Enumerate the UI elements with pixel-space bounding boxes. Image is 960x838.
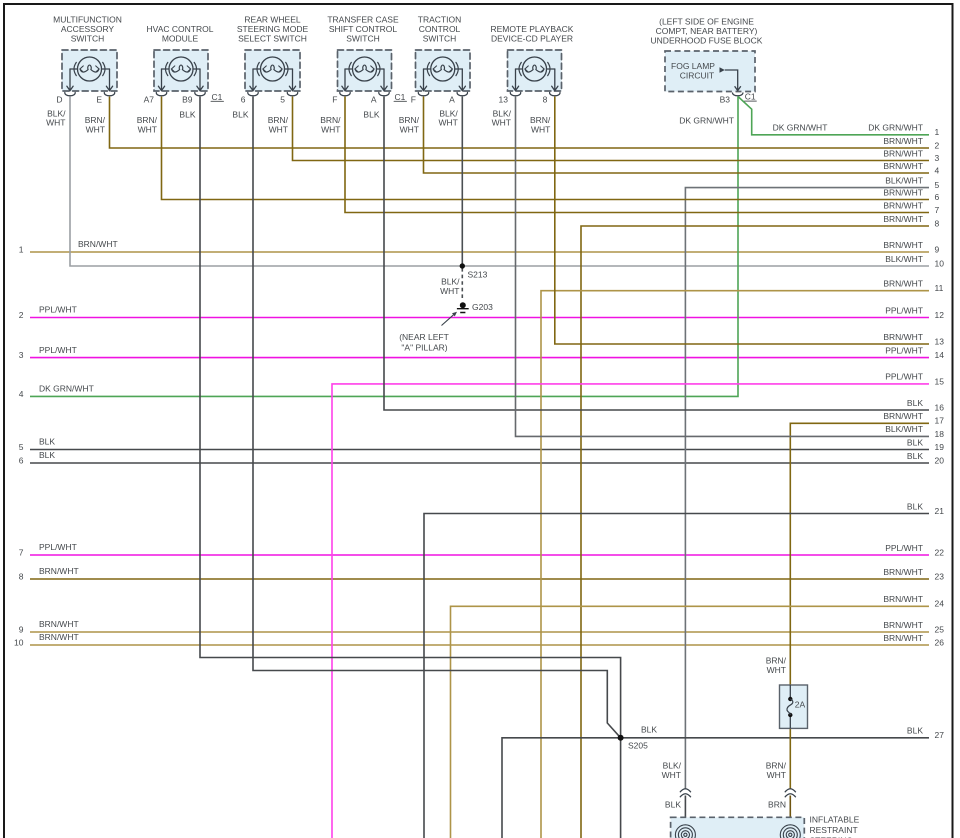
wire BLK left-6 to right-20 — [30, 462, 929, 464]
svg-text:TRACTION: TRACTION — [418, 15, 461, 25]
svg-text:INFLATABLE: INFLATABLE — [810, 814, 860, 824]
svg-text:D: D — [56, 94, 62, 104]
pin D wire color label — [46, 109, 66, 128]
svg-text:A: A — [449, 94, 455, 104]
svg-text:9: 9 — [935, 244, 940, 254]
svg-text:BLK: BLK — [232, 110, 248, 120]
wire BLK pin 6 branch to S205 — [253, 97, 621, 738]
svg-text:BLK: BLK — [363, 110, 379, 120]
svg-text:10: 10 — [14, 637, 24, 647]
svg-text:S205: S205 — [628, 740, 648, 750]
svg-text:BLK: BLK — [641, 724, 657, 734]
wire DK GRN/WHT fuse B3 to right-1 — [738, 97, 929, 135]
S213 wire label BLK/WHT — [440, 276, 460, 296]
fuse F1 2A — [780, 685, 808, 728]
svg-text:9: 9 — [19, 624, 24, 634]
pin A wire color label — [363, 110, 379, 120]
svg-text:3: 3 — [19, 350, 24, 360]
splice S205 — [618, 735, 649, 751]
svg-text:19: 19 — [935, 442, 945, 452]
svg-text:BLK: BLK — [907, 726, 923, 736]
svg-text:BLK/WHT: BLK/WHT — [885, 175, 923, 185]
pin A wire color label — [438, 109, 458, 128]
svg-text:F: F — [411, 94, 416, 104]
svg-text:BLK: BLK — [907, 451, 923, 461]
svg-text:SWITCH: SWITCH — [346, 34, 380, 44]
svg-text:C1: C1 — [395, 92, 406, 102]
svg-text:BLK: BLK — [907, 398, 923, 408]
svg-text:20: 20 — [935, 455, 945, 465]
wire BRN/WHT right-8 down to bottom — [581, 226, 929, 838]
svg-text:7: 7 — [19, 547, 24, 557]
svg-text:PPL/WHT: PPL/WHT — [39, 345, 77, 355]
transfer case shift control switch S3 — [327, 15, 406, 105]
svg-text:PPL/WHT: PPL/WHT — [39, 305, 77, 315]
svg-text:6: 6 — [935, 192, 940, 202]
svg-text:BRN/WHT: BRN/WHT — [883, 161, 923, 171]
wire BRN/WHT left-1 to right-9 — [30, 251, 929, 253]
svg-text:6: 6 — [19, 455, 24, 465]
svg-text:BRN/WHT: BRN/WHT — [883, 214, 923, 224]
svg-text:1: 1 — [19, 244, 24, 254]
svg-text:13: 13 — [935, 336, 945, 346]
svg-text:BRN/WHT: BRN/WHT — [883, 148, 923, 158]
svg-text:BRN/WHT: BRN/WHT — [883, 136, 923, 146]
svg-text:8: 8 — [935, 218, 940, 228]
svg-text:BLK: BLK — [179, 110, 195, 120]
remote playback device-CD player U2 — [491, 24, 574, 104]
svg-text:BRN/WHT: BRN/WHT — [883, 411, 923, 421]
svg-text:DK GRN/WHT: DK GRN/WHT — [773, 122, 828, 132]
svg-text:2: 2 — [935, 140, 940, 150]
svg-text:BRN/WHT: BRN/WHT — [883, 187, 923, 197]
svg-text:1: 1 — [935, 127, 940, 137]
clockspring coil right — [780, 825, 800, 838]
wire BLK/WHT right-5 down to connector — [685, 188, 929, 790]
pin 6 wire color label — [232, 110, 248, 120]
svg-text:WHT: WHT — [269, 125, 288, 135]
pin F wire color label — [320, 115, 341, 135]
svg-text:BRN/WHT: BRN/WHT — [883, 332, 923, 342]
in-line connector C3 (BRN/WHT to BRN) — [766, 760, 796, 809]
svg-text:8: 8 — [543, 94, 548, 104]
svg-text:MULTIFUNCTION: MULTIFUNCTION — [53, 15, 122, 25]
svg-text:22: 22 — [935, 547, 945, 557]
wire BRN connector to clockspring — [789, 796, 791, 825]
wire BRN/WHT left-8 to right-23 — [30, 578, 929, 580]
svg-text:WHT: WHT — [46, 118, 65, 128]
svg-text:C1: C1 — [745, 92, 756, 102]
svg-text:13: 13 — [499, 94, 509, 104]
pin F wire color label — [399, 115, 420, 135]
svg-text:BRN/WHT: BRN/WHT — [883, 240, 923, 250]
svg-text:BRN: BRN — [768, 799, 786, 809]
clockspring coil left — [675, 825, 695, 838]
svg-text:DK GRN/WHT: DK GRN/WHT — [39, 384, 94, 394]
wire BLK HVAC C1 branch to S205 — [200, 97, 621, 738]
svg-text:SWITCH: SWITCH — [423, 34, 457, 44]
svg-text:BLK/: BLK/ — [441, 276, 460, 286]
svg-text:8: 8 — [19, 571, 24, 581]
pin E wire color label — [85, 115, 106, 135]
svg-text:PPL/WHT: PPL/WHT — [39, 542, 77, 552]
svg-text:E: E — [96, 94, 102, 104]
svg-text:STEERING MODE: STEERING MODE — [237, 24, 309, 34]
svg-text:"A" PILLAR): "A" PILLAR) — [401, 342, 447, 352]
svg-text:5: 5 — [280, 94, 285, 104]
svg-text:G203: G203 — [472, 302, 493, 312]
wire BLK/WHT pin D to right-10 — [70, 97, 929, 267]
wire BRN/WHT left-10 to right-26 — [30, 644, 929, 646]
svg-text:BRN/WHT: BRN/WHT — [883, 200, 923, 210]
wire BLK pin A(S3) to right-16 — [384, 97, 929, 411]
inflatable restraint steering wheel module coil U4 — [671, 814, 860, 838]
svg-text:BRN/: BRN/ — [766, 655, 787, 665]
wire BRN/WHT fuse 2A to connector — [789, 728, 791, 789]
svg-text:WHT: WHT — [440, 286, 459, 296]
svg-text:TRANSFER CASE: TRANSFER CASE — [327, 15, 399, 25]
svg-text:BLK/: BLK/ — [663, 760, 682, 770]
rear wheel steering mode select switch S2 — [237, 15, 309, 105]
wire BRN/WHT pin A7 to right-6 — [162, 97, 930, 200]
wire BRN/WHT right-24 down to bottom — [451, 606, 930, 838]
svg-text:BLK/WHT: BLK/WHT — [885, 254, 923, 264]
svg-text:16: 16 — [935, 402, 945, 412]
wire PPL/WHT left-7 to right-22 — [30, 554, 929, 556]
svg-text:WHT: WHT — [400, 125, 419, 135]
wire BLK below splice S205 — [620, 738, 622, 838]
wire BRN/WHT right-17 to fuse 2A — [790, 423, 929, 685]
svg-text:DEVICE-CD PLAYER: DEVICE-CD PLAYER — [491, 34, 573, 44]
svg-text:SHIFT CONTROL: SHIFT CONTROL — [329, 24, 398, 34]
svg-text:DK GRN/WHT: DK GRN/WHT — [868, 123, 923, 133]
svg-text:PPL/WHT: PPL/WHT — [885, 372, 923, 382]
svg-text:C1: C1 — [212, 92, 223, 102]
svg-text:S213: S213 — [468, 269, 488, 279]
svg-text:18: 18 — [935, 429, 945, 439]
svg-text:REMOTE PLAYBACK: REMOTE PLAYBACK — [491, 24, 574, 34]
wire BRN/WHT right-11 down to bottom — [541, 291, 929, 838]
pin 8 wire color label — [530, 115, 551, 135]
svg-text:24: 24 — [935, 599, 945, 609]
svg-text:WHT: WHT — [321, 125, 340, 135]
svg-text:23: 23 — [935, 571, 945, 581]
svg-text:4: 4 — [19, 389, 24, 399]
svg-text:WHT: WHT — [86, 125, 105, 135]
pin A7 wire color label — [137, 115, 158, 135]
left terminal numbers and wire labels — [14, 239, 118, 647]
HVAC control module U1 — [144, 24, 224, 104]
svg-text:WHT: WHT — [138, 125, 157, 135]
ground G203 — [457, 302, 493, 313]
svg-text:(LEFT SIDE OF ENGINE: (LEFT SIDE OF ENGINE — [659, 17, 754, 27]
svg-text:RESTRAINT: RESTRAINT — [810, 825, 858, 835]
svg-text:5: 5 — [935, 180, 940, 190]
fuse wire label BRN/WHT — [766, 655, 787, 675]
svg-text:SWITCH: SWITCH — [71, 34, 105, 44]
wire BLK/WHT dashed S213 to G203 — [461, 268, 463, 300]
wire PPL/WHT left-2 to right-12 — [30, 317, 929, 319]
wire BRN/WHT left-9 to right-25 — [30, 631, 929, 633]
G203 location callout — [399, 312, 457, 353]
svg-text:BLK: BLK — [907, 501, 923, 511]
svg-text:BRN/: BRN/ — [530, 115, 551, 125]
svg-text:BRN/WHT: BRN/WHT — [883, 279, 923, 289]
svg-text:26: 26 — [935, 637, 945, 647]
svg-text:5: 5 — [19, 442, 24, 452]
svg-text:BRN/WHT: BRN/WHT — [883, 620, 923, 630]
wire BLK right-27 / S205 bus — [502, 738, 929, 838]
svg-text:A7: A7 — [144, 94, 155, 104]
svg-text:17: 17 — [935, 416, 945, 426]
svg-text:WHT: WHT — [438, 118, 457, 128]
svg-text:2: 2 — [19, 310, 24, 320]
wire PPL/WHT right-15 down to bottom — [332, 384, 929, 838]
svg-text:WHT: WHT — [531, 125, 550, 135]
svg-text:WHT: WHT — [767, 665, 786, 675]
svg-text:BRN/: BRN/ — [137, 115, 158, 125]
svg-text:6: 6 — [241, 94, 246, 104]
svg-text:PPL/WHT: PPL/WHT — [885, 305, 923, 315]
underhood fuse block U3 — [651, 17, 763, 105]
svg-text:BLK: BLK — [39, 450, 55, 460]
svg-text:BRN/WHT: BRN/WHT — [883, 594, 923, 604]
pin 5 wire color label — [268, 115, 289, 135]
svg-text:BRN/: BRN/ — [85, 115, 106, 125]
splice S213 — [460, 263, 488, 279]
multifunction accessory switch S1 — [53, 15, 122, 105]
svg-text:12: 12 — [935, 310, 945, 320]
svg-text:BRN/: BRN/ — [766, 760, 787, 770]
wire BRN/WHT pin 8 to right-13 — [555, 97, 929, 345]
svg-text:BLK: BLK — [39, 437, 55, 447]
svg-text:UNDERHOOD FUSE BLOCK: UNDERHOOD FUSE BLOCK — [651, 36, 763, 46]
svg-text:BRN/WHT: BRN/WHT — [883, 633, 923, 643]
svg-text:BRN/WHT: BRN/WHT — [883, 567, 923, 577]
svg-text:DK GRN/WHT: DK GRN/WHT — [679, 115, 734, 125]
svg-text:2A: 2A — [795, 699, 806, 709]
svg-text:PPL/WHT: PPL/WHT — [885, 543, 923, 553]
wire BLK/WHT pin A(S4) to splice S213 — [461, 97, 463, 267]
wire BRN/WHT pin F(S3) to right-7 — [345, 97, 929, 213]
svg-text:BLK: BLK — [907, 437, 923, 447]
svg-text:15: 15 — [935, 376, 945, 386]
svg-text:BRN/: BRN/ — [268, 115, 289, 125]
wire DK GRN/WHT left-4 to fuse pin B3 — [30, 97, 738, 397]
svg-text:FOG LAMP: FOG LAMP — [671, 61, 715, 71]
pin 13 wire color label — [492, 109, 512, 128]
svg-text:COMPT, NEAR BATTERY): COMPT, NEAR BATTERY) — [656, 26, 758, 36]
svg-text:CIRCUIT: CIRCUIT — [680, 70, 714, 80]
svg-text:11: 11 — [935, 283, 944, 293]
svg-text:HVAC CONTROL: HVAC CONTROL — [147, 24, 214, 34]
svg-text:A: A — [371, 94, 377, 104]
svg-text:SELECT SWITCH: SELECT SWITCH — [238, 34, 307, 44]
svg-text:WHT: WHT — [492, 118, 511, 128]
wire BLK/WHT pin 13 to right-18 — [516, 97, 930, 437]
wire BLK right-21 down to bottom — [424, 514, 929, 838]
wire BRN/WHT pin F(S4) to right-4 — [424, 97, 930, 174]
svg-text:MODULE: MODULE — [162, 34, 199, 44]
svg-text:7: 7 — [935, 205, 940, 215]
svg-text:3: 3 — [935, 153, 940, 163]
right terminal numbers and wire labels — [868, 123, 944, 741]
wire PPL/WHT left-3 to right-14 — [30, 357, 929, 359]
svg-text:B3: B3 — [720, 94, 731, 104]
wire BRN/WHT pin 5 to right-3 — [293, 97, 930, 161]
svg-text:BRN/WHT: BRN/WHT — [39, 566, 79, 576]
svg-text:4: 4 — [935, 165, 940, 175]
wire BRN/WHT pin E to right-2 — [110, 97, 930, 149]
svg-text:27: 27 — [935, 730, 945, 740]
svg-text:25: 25 — [935, 624, 945, 634]
svg-text:BRN/: BRN/ — [320, 115, 341, 125]
svg-text:CONTROL: CONTROL — [419, 24, 461, 34]
svg-text:BRN/WHT: BRN/WHT — [78, 239, 118, 249]
svg-text:10: 10 — [935, 258, 945, 268]
svg-text:21: 21 — [935, 506, 945, 516]
svg-text:(NEAR LEFT: (NEAR LEFT — [399, 332, 449, 342]
svg-text:14: 14 — [935, 350, 945, 360]
wire BLK connector to clockspring — [684, 796, 686, 825]
svg-text:BLK: BLK — [665, 799, 681, 809]
svg-text:F: F — [332, 94, 337, 104]
svg-text:WHT: WHT — [662, 770, 681, 780]
svg-text:BLK/WHT: BLK/WHT — [885, 424, 923, 434]
traction control switch S4 — [411, 15, 470, 105]
wire BLK left-5 to right-19 — [30, 449, 929, 451]
svg-text:PPL/WHT: PPL/WHT — [885, 345, 923, 355]
svg-text:BRN/WHT: BRN/WHT — [39, 619, 79, 629]
svg-text:WHT: WHT — [767, 770, 786, 780]
in-line connector C2 (BLK/WHT to BLK) — [662, 760, 691, 809]
svg-text:REAR WHEEL: REAR WHEEL — [244, 15, 300, 25]
svg-text:B9: B9 — [182, 94, 193, 104]
pin B9 wire color label — [179, 110, 195, 120]
svg-text:ACCESSORY: ACCESSORY — [61, 24, 115, 34]
svg-text:BRN/WHT: BRN/WHT — [39, 632, 79, 642]
svg-text:BRN/: BRN/ — [399, 115, 420, 125]
